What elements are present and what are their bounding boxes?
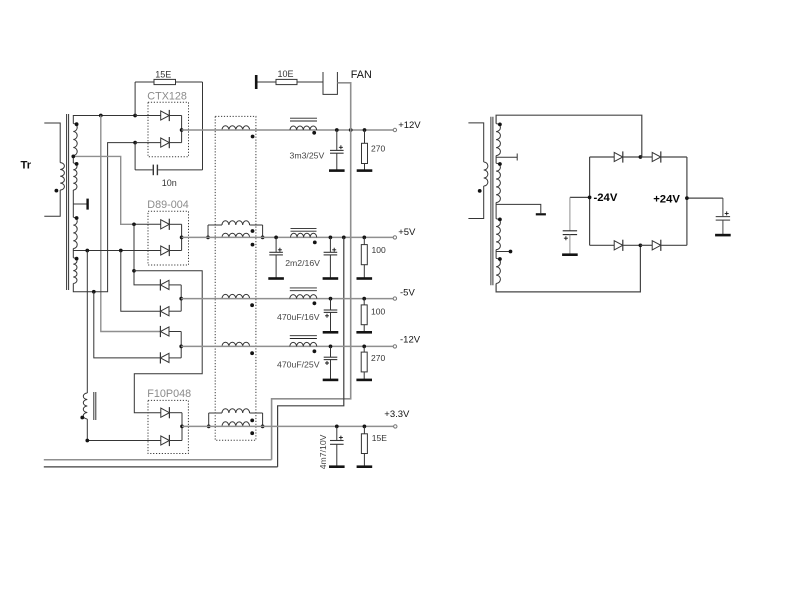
junction node A / gray drop <box>99 114 103 118</box>
transformer Tr core <box>66 114 68 290</box>
junction AC1 <box>639 155 643 159</box>
inductor L4 core <box>290 335 317 337</box>
transformer Tr primary polarity dot <box>55 189 59 193</box>
choke W2 polarity dots <box>251 229 255 233</box>
wire FAN gray drop to bus <box>272 130 351 460</box>
inductor 3.3V winding <box>83 393 87 419</box>
wire T2 drop to -5V lower diode <box>121 251 161 312</box>
wire +24V node <box>687 197 723 199</box>
chassis bar at Tr center <box>86 199 88 210</box>
terminal +5V <box>393 236 396 239</box>
svg-text:-5V: -5V <box>400 287 415 298</box>
L1 polarity dot <box>312 131 316 135</box>
transformer Tr primary lead bottom <box>44 190 60 216</box>
wire bridge left (-24V) side <box>589 157 591 245</box>
transformer T2 secondary S4 <box>496 258 500 283</box>
transformer T2 core <box>490 117 492 285</box>
diode bridge D1 <box>614 152 623 161</box>
T2 tap3 stub <box>496 251 510 253</box>
resistor 15E <box>154 79 176 84</box>
capacitor 470uF/16V <box>330 299 332 310</box>
svg-text:-12V: -12V <box>400 335 421 346</box>
snubber box right edge <box>202 82 204 170</box>
wire node A top <box>73 116 135 124</box>
snubber box left edge <box>134 82 136 116</box>
T2 link S3-S4 <box>495 250 497 259</box>
chassis bar T2 tap2 <box>536 213 546 215</box>
inductor L4 <box>290 342 317 346</box>
common-mode choke dotted box <box>215 116 256 440</box>
svg-text:+5V: +5V <box>398 227 416 238</box>
capacitor +24V <box>722 198 724 217</box>
svg-text:15E: 15E <box>372 433 387 443</box>
junction -12V cap <box>329 345 333 349</box>
junction 3.3V winding bottom <box>85 439 89 443</box>
junction -5V resistor <box>362 297 366 301</box>
transformer Tr secondary link S2-S3 <box>72 190 74 217</box>
svg-text:3m3/25V: 3m3/25V <box>290 151 325 161</box>
svg-text:15E: 15E <box>155 70 171 80</box>
dual diode D89-004 dotted box <box>148 211 189 265</box>
transformer Tr primary winding <box>60 163 64 190</box>
wire -5V rail <box>181 298 393 300</box>
T2 link S2-S3 <box>495 203 497 219</box>
snubber box top edge with 15E <box>135 81 154 83</box>
diode CTX128 upper <box>135 115 161 117</box>
wire T2 top to bridge AC1 <box>496 115 642 157</box>
transformer Tr secondary winding S1 <box>73 124 77 156</box>
wire 10E to FAN connector <box>297 81 323 83</box>
chassis bar FAN <box>255 75 258 89</box>
transformer T2 secondary S1 <box>496 124 500 156</box>
choke winding W5 lower <box>222 422 250 427</box>
wire D89-004 cathode join <box>181 224 183 250</box>
3.3V winding core <box>93 392 95 420</box>
junction W2 right <box>261 236 265 240</box>
svg-text:100: 100 <box>372 245 386 255</box>
junction +3.3V cap <box>335 425 339 429</box>
wire 3.3V winding to F10P048 lower diode <box>87 419 161 441</box>
transformer Tr secondary winding S3 <box>73 217 77 248</box>
transformer T2 secondary S2 <box>496 163 500 202</box>
svg-text:+12V: +12V <box>398 120 421 131</box>
diode -12V lower <box>160 353 169 362</box>
wire -12V rail <box>181 345 393 347</box>
inductor L3 <box>290 295 317 299</box>
svg-text:470uF/16V: 470uF/16V <box>277 312 320 322</box>
T2 tap1 stub <box>496 156 517 158</box>
capacitor -24V <box>569 197 571 230</box>
svg-text:F10P048: F10P048 <box>147 388 191 400</box>
junction +5V resistor <box>362 236 366 240</box>
wire T1 branch to F10P048 box <box>134 271 202 413</box>
choke winding W1 +12V <box>222 126 250 130</box>
svg-text:470uF/25V: 470uF/25V <box>277 360 320 370</box>
wire +5V rail <box>182 236 394 238</box>
transformer T2 primary polarity dot <box>478 189 482 193</box>
capacitor 2m2/16V output <box>329 237 331 252</box>
junction W2 left <box>206 236 210 240</box>
resistor 270 -12V <box>363 346 365 352</box>
resistor 15E +3.3V <box>363 426 365 433</box>
capacitor 10n <box>135 169 153 171</box>
svg-text:+24V: +24V <box>653 193 680 205</box>
junction +5V return drop <box>342 236 346 240</box>
wire D4 to right side <box>661 244 687 246</box>
wire T2 bottom to bridge AC2 <box>496 245 640 292</box>
wire bridge bottom left segment <box>590 244 615 246</box>
T2 tap3 dot <box>509 250 513 254</box>
diode bridge D2 <box>652 152 661 161</box>
junction -5V output <box>179 297 183 301</box>
wire FAN return <box>337 83 350 130</box>
capacitor 2m2/16V input <box>275 237 277 252</box>
transformer T2 primary lead top <box>468 123 483 162</box>
choke winding W2 lower <box>222 233 250 237</box>
transformer Tr primary lead top <box>44 123 60 163</box>
junction W5 left <box>207 425 211 429</box>
svg-text:+3.3V: +3.3V <box>384 409 410 420</box>
junction tap T1 on winding <box>71 155 75 159</box>
transformer Tr secondary link S3-S4 <box>72 249 74 258</box>
inductor L1 core <box>290 117 317 119</box>
inductor L2 core <box>291 227 317 229</box>
wire D1 to AC1 <box>623 156 641 158</box>
junction -5V cap <box>329 297 333 301</box>
wire T1 branch down to -5V upper diode <box>134 224 160 285</box>
diode -12V upper <box>160 327 169 336</box>
wire tap T1 to D89 upper anode <box>73 156 134 224</box>
diode D89-004 upper <box>161 220 170 229</box>
capacitor 470uF/25V <box>330 346 332 357</box>
transformer Tr secondary winding S4 <box>73 258 77 284</box>
wire D3 to AC2 <box>623 244 641 246</box>
junction node A / CTX box <box>133 114 137 118</box>
snubber drop to 10n <box>134 143 136 170</box>
dual diode CTX128 dotted box <box>148 102 189 156</box>
svg-text:2m2/16V: 2m2/16V <box>285 258 320 268</box>
svg-text:-24V: -24V <box>594 192 618 204</box>
wire -12V anode join <box>180 332 182 358</box>
resistor 100 -5V <box>363 299 365 305</box>
junction +12V resistor <box>363 128 367 132</box>
junction +12V cap <box>335 128 339 132</box>
junction +5V cap2 <box>329 236 333 240</box>
diode CTX128 lower <box>135 142 161 144</box>
chassis tap wire at Tr center <box>73 203 86 205</box>
wire gray drop A to -12V diode <box>101 116 161 332</box>
diode F10P048 upper <box>161 408 170 417</box>
wire D2 to right side <box>661 156 687 158</box>
transformer T2 secondary S3 <box>496 219 500 250</box>
transformer Tr S2 polarity dot <box>75 162 79 166</box>
transformer Tr secondary link S1-S2 <box>72 156 74 164</box>
transformer T2 S1 polarity dot <box>498 123 502 127</box>
FAN connector <box>323 72 337 94</box>
junction F10P048 output <box>180 425 184 429</box>
junction -12V output <box>179 345 183 349</box>
diode bridge D3 <box>614 241 623 250</box>
choke winding W3 -5V <box>222 294 250 298</box>
junction +12V fan line <box>349 128 353 132</box>
diode D89-004 lower <box>161 246 170 255</box>
svg-text:Tr: Tr <box>21 160 32 172</box>
diode F10P048 lower <box>161 436 170 445</box>
svg-text:10n: 10n <box>162 178 177 188</box>
transformer T2 S4 polarity dot <box>498 257 502 261</box>
junction T2 / -5V lower diode <box>119 249 123 253</box>
junction D89-004 output <box>180 236 184 240</box>
svg-text:FAN: FAN <box>351 69 372 81</box>
wire CTX128 cathode join <box>181 116 183 143</box>
wire bridge right (+24V) side <box>686 157 688 245</box>
transformer T2 S3 polarity dot <box>498 218 502 222</box>
wire AC1 to D2 <box>640 156 652 158</box>
inductor L1 <box>290 126 317 130</box>
resistor 10E <box>276 79 297 84</box>
junction -12V resistor <box>362 345 366 349</box>
capacitor 4m7/10V <box>336 426 338 440</box>
wire T2 to 3.3V winding <box>86 251 88 394</box>
T2 link S1-S2 <box>495 156 497 164</box>
junction +5V cap1 <box>274 236 278 240</box>
svg-text:D89-004: D89-004 <box>147 199 188 211</box>
terminal -5V <box>393 297 396 300</box>
terminal +3.3V <box>394 425 397 428</box>
diode bridge D4 <box>652 241 661 250</box>
transformer Tr S3 polarity dot <box>75 216 79 220</box>
wire drop B to -12V lower diode <box>94 292 161 358</box>
junction T2 / 3.3V winding <box>85 249 89 253</box>
choke W3 polarity dot <box>250 303 254 307</box>
wire bridge top left segment <box>590 156 615 158</box>
svg-text:270: 270 <box>371 144 385 154</box>
L2 polarity dot <box>313 241 317 245</box>
junction AC2 <box>639 243 643 247</box>
junction T1 / -5V branch <box>132 222 136 226</box>
junction +24V <box>685 196 689 200</box>
wire +3.3V rail <box>182 425 394 427</box>
choke winding W2 +5V upper <box>207 225 209 237</box>
transformer T2 primary winding <box>484 162 488 186</box>
junction -24V <box>588 196 592 200</box>
wire -24V node <box>570 196 590 198</box>
dual diode F10P048 dotted box <box>148 400 188 453</box>
terminal -12V <box>393 345 396 348</box>
junction T1 / F10P048 branch <box>132 269 136 273</box>
svg-text:100: 100 <box>371 307 385 317</box>
T2 tap2 to chassis <box>496 204 541 213</box>
diode -5V upper <box>160 280 169 289</box>
choke winding W5 +3.3V upper <box>208 413 210 426</box>
wire upper return bus <box>44 459 272 461</box>
junction CTX128 output <box>180 128 184 132</box>
diode -5V lower <box>160 307 169 316</box>
wire F10P048 cathode join <box>181 413 183 441</box>
inductor L2 <box>291 233 317 237</box>
wire +12V rail <box>182 129 394 131</box>
choke W4 polarity dot <box>250 351 254 355</box>
L4 polarity dot <box>313 349 317 353</box>
wire +5V return drop to bus <box>278 237 344 467</box>
3.3V winding polarity dot <box>80 416 84 420</box>
wire tap T2 to D89 lower anode <box>73 250 160 252</box>
choke winding W4 -12V <box>222 342 250 346</box>
choke W5 polarity dots <box>250 419 254 423</box>
L3 polarity dot <box>313 301 317 305</box>
transformer Tr secondary winding S2 <box>73 163 77 190</box>
choke W1 polarity dot <box>251 135 255 139</box>
svg-text:10E: 10E <box>278 69 294 79</box>
capacitor 3m3/25V <box>336 130 338 150</box>
resistor 100 +5V <box>363 237 365 244</box>
resistor 270 +12V <box>364 130 366 143</box>
inductor L3 core <box>290 287 317 289</box>
wire -5V anode join <box>180 285 182 311</box>
junction W5 right <box>261 425 265 429</box>
terminal +12V <box>393 128 396 131</box>
svg-text:CTX128: CTX128 <box>147 90 187 102</box>
wire node B bottom <box>73 143 135 292</box>
transformer T2 primary lead bottom <box>468 186 483 219</box>
junction node B / snubber <box>133 141 137 145</box>
wire lower return bus <box>44 466 278 468</box>
transformer Tr S1 polarity dot <box>75 122 79 126</box>
junction +3.3V resistor <box>363 425 367 429</box>
transformer Tr S4 polarity dot <box>75 257 79 261</box>
svg-text:4m7/10V: 4m7/10V <box>318 434 328 469</box>
junction node B / -12V drop <box>92 290 96 294</box>
transformer T2 S2 polarity dot <box>498 162 502 166</box>
wire FAN bar to 10E <box>258 81 277 83</box>
svg-text:270: 270 <box>371 353 385 363</box>
wire AC2 to D4 <box>640 244 652 246</box>
